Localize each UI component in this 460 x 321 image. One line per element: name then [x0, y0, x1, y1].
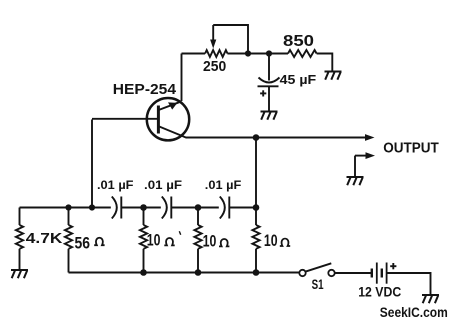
svg-text:850: 850: [283, 33, 314, 50]
svg-text:4.7K: 4.7K: [26, 231, 63, 247]
svg-text:.01 µF: .01 µF: [97, 178, 134, 192]
svg-text:45 µF: 45 µF: [280, 72, 317, 87]
svg-text:SeekIC.com: SeekIC.com: [380, 304, 448, 320]
svg-text:OUTPUT: OUTPUT: [383, 140, 439, 156]
svg-text:.01 µF: .01 µF: [205, 178, 242, 192]
svg-text:10: 10: [147, 231, 161, 250]
svg-text:56: 56: [75, 233, 91, 252]
svg-text:12 VDC: 12 VDC: [358, 284, 401, 300]
svg-text:10: 10: [264, 231, 278, 250]
svg-text:S1: S1: [312, 276, 324, 292]
svg-text:10: 10: [203, 232, 217, 251]
svg-text:250: 250: [203, 59, 226, 75]
svg-text:HEP-254: HEP-254: [113, 81, 177, 98]
svg-text:.01 µF: .01 µF: [144, 178, 182, 192]
